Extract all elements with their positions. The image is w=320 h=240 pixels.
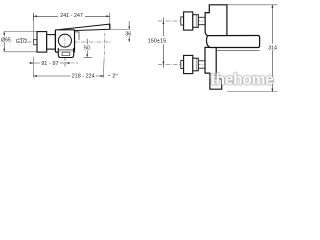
union nut (47, 35, 56, 50)
upper wall flange (181, 17, 184, 25)
lower escutcheon (184, 55, 193, 73)
dim 314 text (268, 44, 278, 50)
spout underside silhouette line (216, 49, 259, 51)
svg-text:36: 36 (125, 32, 131, 38)
G1/2 fitting stub (34, 40, 37, 45)
wall extension line upper (32, 14, 34, 40)
svg-text:218 - 224: 218 - 224 (72, 74, 95, 80)
svg-text:91 - 97: 91 - 97 (41, 61, 58, 67)
dim 50 line (86, 39, 88, 58)
mixer body (55, 30, 74, 52)
svg-text:Ø65: Ø65 (1, 37, 11, 43)
svg-text:314: 314 (268, 45, 277, 51)
dim 218-224 (33, 75, 104, 77)
upper union centerline (158, 20, 206, 22)
lower wall flange (181, 60, 184, 68)
outlet cup (58, 48, 73, 58)
lower connection pipe (198, 61, 205, 68)
lower union nut (193, 58, 199, 71)
side view body lower block (205, 47, 222, 89)
lower union centerline (158, 64, 206, 66)
2 degree label (108, 75, 111, 77)
dim 314 line (271, 5, 273, 92)
dim 36 line (128, 21, 130, 42)
dim 50 reference line (84, 56, 92, 58)
dim 241-247 line (33, 13, 109, 25)
dim 150+-15 line (162, 18, 164, 68)
side view body upper block (205, 5, 227, 36)
outlet flange lines (58, 49, 73, 51)
svg-text:2°: 2° (112, 73, 117, 79)
lever handle (59, 24, 110, 31)
upper connection pipe (198, 17, 205, 24)
2 degree slanted extension line (103, 33, 106, 58)
svg-text:G1/2: G1/2 (16, 39, 28, 45)
valve cap circle (58, 34, 71, 47)
handle tip cap (109, 24, 111, 29)
dia65 extension lines (4, 32, 37, 52)
aerator inner rect (62, 52, 70, 56)
svg-text:150±15: 150±15 (148, 39, 167, 45)
handle pivot tab (75, 32, 80, 40)
dim 91-97 (29, 62, 70, 64)
spout (side) (207, 36, 260, 48)
escutcheon rect (37, 32, 47, 52)
bottom extension line to 314 (227, 91, 277, 93)
upper escutcheon (184, 12, 193, 30)
wall extension line lower (32, 57, 34, 78)
watermark thehome (211, 71, 275, 88)
svg-text:241 - 247: 241 - 247 (60, 13, 83, 19)
upper union nut (193, 15, 199, 28)
top extension line to 314 (227, 4, 277, 6)
dim 36 extension line (110, 29, 130, 31)
svg-text:50: 50 (84, 46, 90, 52)
dia65 dimension line (3, 32, 5, 52)
circle crosshair (64, 34, 66, 48)
vertical centerline of outlet (64, 33, 66, 67)
main horizontal centerline (28, 41, 113, 43)
svg-text:thehome: thehome (211, 71, 275, 88)
